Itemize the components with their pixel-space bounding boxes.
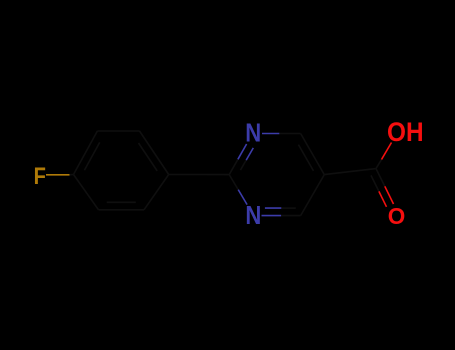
svg-text:N: N bbox=[245, 119, 261, 148]
svg-text:N: N bbox=[245, 201, 261, 230]
svg-text:F: F bbox=[34, 162, 46, 189]
svg-text:OH: OH bbox=[387, 118, 424, 147]
svg-text:O: O bbox=[388, 202, 406, 229]
